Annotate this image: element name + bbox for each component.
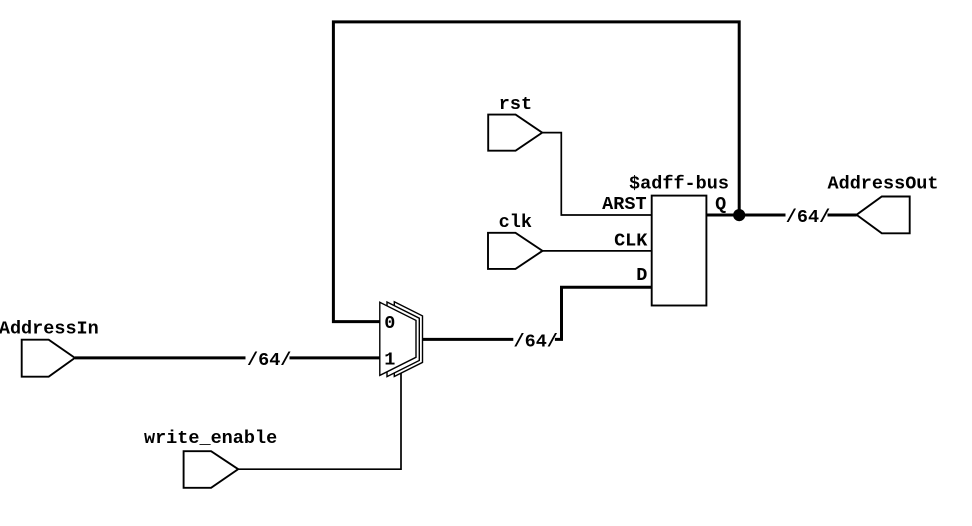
svg-text:ARST: ARST <box>602 194 646 215</box>
svg-text:0: 0 <box>384 313 395 334</box>
svg-text:D: D <box>636 265 647 286</box>
svg-text:/64/: /64/ <box>514 331 558 352</box>
svg-text:1: 1 <box>384 349 395 370</box>
wire: AddressIn -> mux input 1 (bus, right segment) <box>290 356 380 359</box>
svg-text:rst: rst <box>499 94 532 115</box>
svg-text:clk: clk <box>499 212 532 233</box>
svg-text:Q: Q <box>715 194 726 215</box>
input port AddressIn <box>22 340 75 377</box>
wire: mux output -> dff D (bus, right segment with corner) <box>555 287 652 339</box>
mux U1 back outline (bus stack copy 3) <box>394 302 422 377</box>
wire: write_enable -> mux select <box>238 362 401 469</box>
output port AddressOut <box>857 197 910 234</box>
wire: dff Q -> junction -> AddressOut (bus, left segment) <box>706 214 785 217</box>
wire: mux output -> dff D (bus, left segment) <box>416 338 513 341</box>
dff U2 body ($adff-bus) <box>652 196 707 306</box>
mux U1 front outline ($mux) <box>380 302 416 375</box>
svg-text:CLK: CLK <box>614 230 648 251</box>
svg-text:$adff-bus: $adff-bus <box>629 174 729 195</box>
wire: feedback bus Q -> mux input 0 (top loop) <box>333 22 739 322</box>
wire: rst -> dff ARST <box>542 133 652 215</box>
svg-text:AddressOut: AddressOut <box>827 174 938 195</box>
junction: node on Q bus <box>733 209 745 221</box>
svg-text:write_enable: write_enable <box>144 428 277 449</box>
wire: AddressIn -> mux input 1 (bus, left segment) <box>75 356 246 359</box>
input port write_enable <box>184 451 239 488</box>
input port clk <box>488 233 543 269</box>
wire: dff Q -> AddressOut (bus, right segment) <box>828 214 857 217</box>
mux U1 middle outline (bus stack copy 2) <box>387 302 419 377</box>
input port rst <box>488 115 542 151</box>
svg-text:/64/: /64/ <box>786 207 830 228</box>
svg-text:/64/: /64/ <box>247 350 291 371</box>
wire: clk -> dff CLK <box>543 250 652 252</box>
svg-text:AddressIn: AddressIn <box>0 319 99 340</box>
